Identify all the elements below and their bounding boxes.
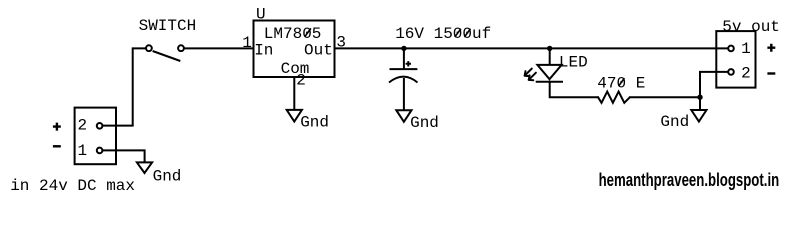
svg-text:1: 1 (242, 34, 252, 52)
svg-text:1: 1 (741, 40, 751, 58)
ground symbol (capacitor) (396, 110, 411, 122)
wire: LED cathode down and right to resistor (550, 82, 598, 98)
wire: capacitor to ground (403, 79, 405, 110)
svg-text:5v out: 5v out (722, 18, 780, 36)
junction node at resistor/gnd (697, 95, 702, 100)
J1 pin 1 terminal circle (97, 148, 103, 154)
wire: output rail U pin3 to J2 pin1 (335, 47, 727, 49)
switch pole circle (146, 45, 152, 51)
switch lever (153, 51, 181, 61)
svg-text:Gnd: Gnd (300, 113, 329, 131)
wire: J1 pin1 to ground (103, 150, 145, 162)
wire: switch to U pin 1 (185, 47, 253, 49)
capacitor C1 bottom curved plate (389, 77, 418, 83)
slash of zero in LM7805 (305, 28, 311, 36)
slashes of zeros in 1500uf (455, 29, 461, 37)
svg-text:Gnd: Gnd (410, 114, 439, 132)
wire: rail to capacitor top plate (403, 48, 405, 68)
svg-text:Out: Out (304, 42, 333, 60)
svg-text:SWITCH: SWITCH (139, 17, 197, 35)
J2 pin 2 terminal circle (728, 69, 734, 75)
ground symbol (output return) (691, 110, 706, 122)
svg-text:Gnd: Gnd (153, 167, 182, 185)
svg-text:In: In (254, 42, 273, 60)
svg-text:2: 2 (741, 64, 751, 82)
switch throw circle (178, 45, 184, 51)
LED D1 triangle (537, 65, 561, 79)
minus polarity mark (input) (53, 145, 61, 147)
svg-text:16V 1500uf: 16V 1500uf (395, 25, 491, 43)
plus polarity mark (output) (767, 44, 775, 52)
plus polarity mark (input) (53, 123, 61, 131)
wire: J2 pin2 down to junction (700, 72, 727, 97)
connector J1 (input) box (75, 108, 116, 165)
LED arrow 1 (525, 69, 532, 77)
wire: U pin 2 to ground (293, 77, 295, 110)
svg-text:2: 2 (78, 117, 88, 135)
slash of zero in 470 (619, 78, 625, 86)
resistor R1 zigzag (598, 92, 630, 103)
J1 pin 2 terminal circle (97, 123, 103, 129)
LED arrow 2 (529, 73, 536, 81)
wire: resistor to junction (630, 96, 700, 98)
svg-text:hemanthpraveen.blogspot.in: hemanthpraveen.blogspot.in (599, 170, 780, 190)
junction node at capacitor tap (401, 46, 406, 51)
svg-text:LED: LED (559, 53, 588, 71)
minus polarity mark (output) (767, 72, 775, 74)
svg-text:2: 2 (296, 72, 306, 90)
wire: junction to ground (699, 97, 701, 110)
wire: rail down to LED anode (549, 48, 551, 64)
ground symbol (U com) (287, 110, 302, 122)
svg-text:LM7805: LM7805 (264, 25, 322, 43)
ground symbol (input) (137, 162, 152, 173)
svg-text:in 24v DC max: in 24v DC max (10, 177, 135, 195)
svg-text:U: U (256, 6, 266, 24)
op-amp style box: regulator U (254, 21, 335, 78)
junction node at LED tap (547, 46, 552, 51)
capacitor plus mark (406, 61, 411, 66)
connector J2 (output) box (716, 31, 755, 88)
J2 pin 1 terminal circle (728, 46, 734, 52)
svg-text:1: 1 (78, 142, 88, 160)
wire: J1 pin2 to switch (up) (103, 48, 145, 125)
capacitor C1 top plate (391, 68, 417, 70)
LED cathode bar (537, 81, 562, 83)
svg-text:Gnd: Gnd (660, 113, 689, 131)
